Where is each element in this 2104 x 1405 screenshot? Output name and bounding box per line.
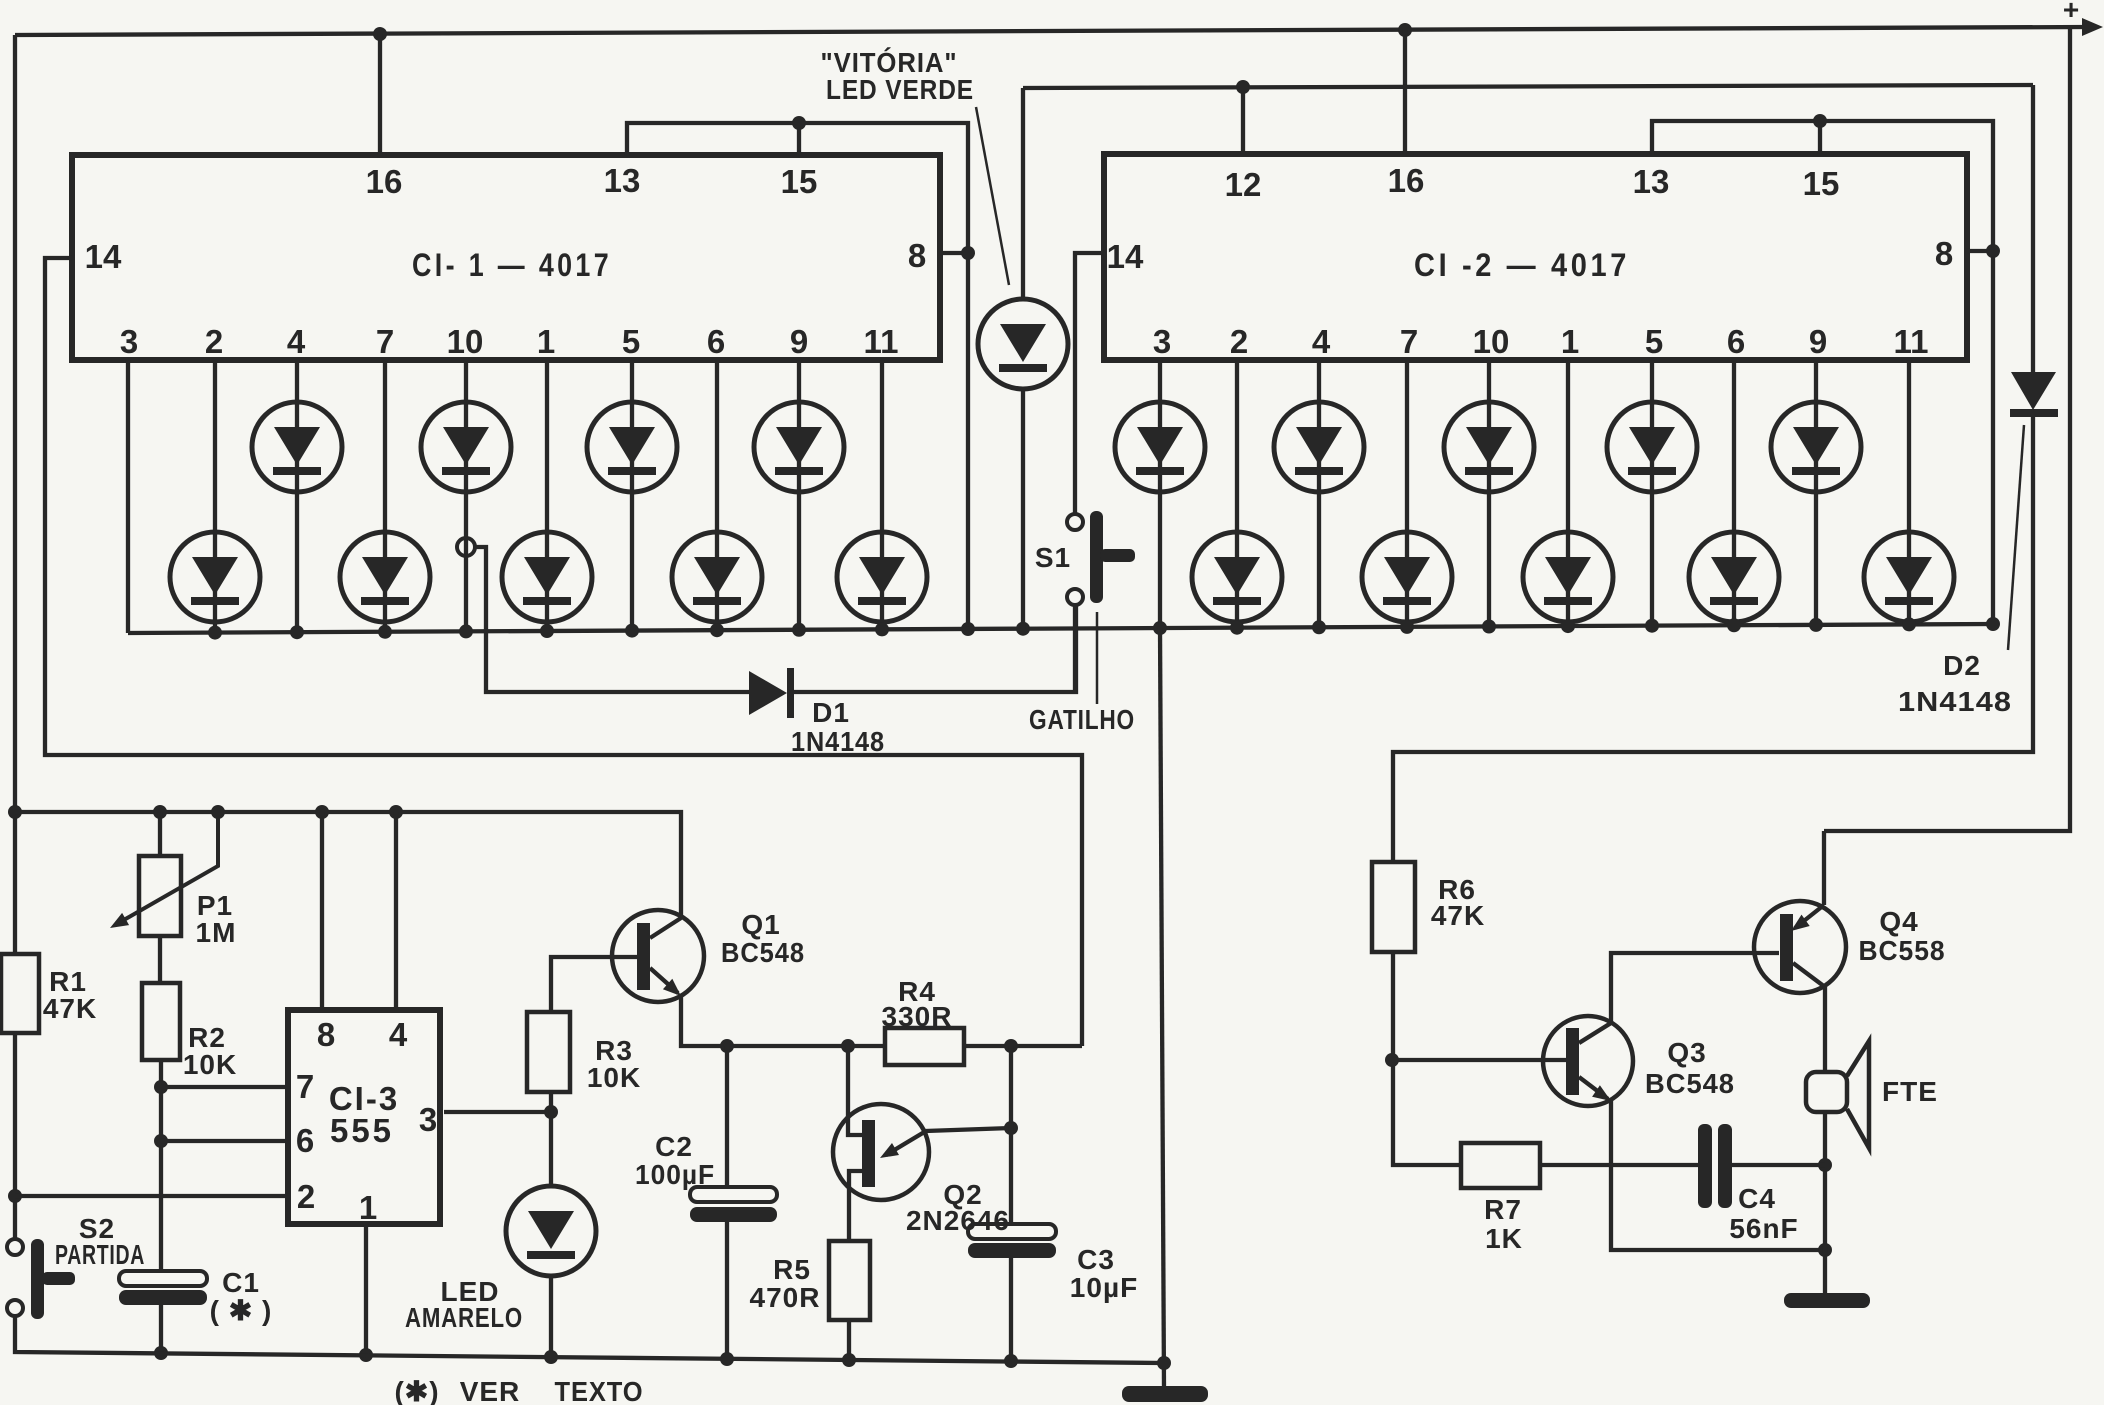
wire: CI-2 pin 3 column bbox=[1158, 360, 1162, 628]
wire: S1 lower terminal down bbox=[1073, 605, 1077, 692]
wire: P1 bottom to R2 top bbox=[158, 936, 162, 983]
wire: CI-2 pin 11 column bbox=[1907, 360, 1911, 625]
node: bus CI-2 pin7 bbox=[1400, 620, 1414, 634]
svg-text:1N4148: 1N4148 bbox=[791, 726, 885, 757]
node: bus CI-2 pin4 bbox=[1312, 620, 1326, 634]
svg-text:R5: R5 bbox=[773, 1254, 811, 1285]
node: bus pin11 bbox=[875, 622, 889, 636]
transistor Q4 emitter stroke with arrow (PNP) bbox=[1795, 905, 1824, 928]
svg-text:330R: 330R bbox=[882, 1001, 953, 1032]
node: bus pin5 bbox=[625, 624, 639, 638]
svg-text:6: 6 bbox=[1727, 323, 1745, 360]
svg-text:C2: C2 bbox=[655, 1131, 693, 1162]
wire: second rail (LED verde anode / CI-2 pin 12 / D2 anode) bbox=[1023, 85, 2033, 88]
resistor R4 bbox=[885, 1028, 964, 1065]
wire: +V top rail bbox=[15, 27, 2088, 35]
LED on CI-1 pin 9 bbox=[754, 402, 844, 492]
wire: 555 pin 3 output bbox=[444, 1110, 551, 1114]
svg-text:3: 3 bbox=[120, 323, 138, 360]
LED on CI-2 pin 6 bbox=[1689, 532, 1779, 622]
node: R5 / ground rail bbox=[842, 1353, 856, 1367]
wire: CI-1 pin 11 column bbox=[880, 360, 884, 630]
svg-text:1K: 1K bbox=[1485, 1223, 1523, 1254]
svg-text:10µF: 10µF bbox=[1070, 1272, 1138, 1303]
wire: left frame lower (R1 to S2) bbox=[13, 1033, 17, 1239]
node: R2 column / pin 7 wire bbox=[154, 1080, 168, 1094]
svg-text:S1: S1 bbox=[1035, 542, 1071, 573]
node: VCC rail / 555 pin 4 bbox=[389, 805, 403, 819]
switch S1 plunger bbox=[1090, 511, 1103, 603]
transistor Q1 circle bbox=[612, 910, 704, 1002]
svg-text:470R: 470R bbox=[750, 1282, 821, 1313]
switch S2 plunger bbox=[31, 1239, 44, 1319]
svg-text:Q3: Q3 bbox=[1667, 1037, 1706, 1068]
svg-text:C4: C4 bbox=[1738, 1183, 1776, 1214]
wire: C4 right to speaker column bbox=[1730, 1163, 1825, 1167]
svg-text:56nF: 56nF bbox=[1729, 1213, 1798, 1244]
wire: pin3 node down to LED amarelo bbox=[549, 1112, 553, 1187]
wire: CI-1 pin 7 column bbox=[383, 360, 387, 632]
svg-text:5: 5 bbox=[622, 323, 640, 360]
svg-text:CI -2 — 4017: CI -2 — 4017 bbox=[1414, 247, 1630, 283]
node: bus pin2 bbox=[208, 626, 222, 640]
node: R4 right / C3 column bbox=[1004, 1039, 1018, 1053]
switch S1 upper contact bbox=[1067, 514, 1083, 530]
transistor Q3 collector stroke bbox=[1579, 1023, 1611, 1043]
node: speaker column / C4-R7 line bbox=[1818, 1158, 1832, 1172]
resistor R5 bbox=[829, 1241, 870, 1320]
node: left frame / 555 VCC rail bbox=[8, 805, 22, 819]
capacitor C4 right plate bbox=[1718, 1124, 1732, 1208]
node: pin 8 / jumper bbox=[1986, 244, 2000, 258]
speaker FTE body bbox=[1806, 1072, 1847, 1112]
potentiometer P1 wiper arrow bbox=[122, 812, 218, 921]
svg-text:14: 14 bbox=[85, 238, 122, 275]
transistor Q2 emitter wire with arrow bbox=[886, 1128, 1011, 1155]
transistor Q3 base bar bbox=[1566, 1028, 1579, 1095]
capacitor C3 bottom plate bbox=[968, 1243, 1056, 1258]
svg-text:GATILHO: GATILHO bbox=[1029, 704, 1135, 735]
wire: Q4 emitter feed from + rail bbox=[1822, 831, 1826, 905]
wire: Q4 collector down to speaker bbox=[1823, 987, 1827, 1072]
switch S2 upper contact bbox=[7, 1239, 23, 1255]
+V arrowhead bbox=[2082, 18, 2103, 36]
diode D1 triangle bbox=[749, 671, 787, 715]
LED on CI-1 pin 11 bbox=[837, 532, 927, 622]
wire: CI-2 pin 15 riser bbox=[1818, 121, 1822, 154]
leader line to LED verde bbox=[976, 107, 1009, 285]
wire: 555 pin 2 bbox=[15, 1194, 288, 1198]
wire: C3 column bbox=[1009, 1046, 1013, 1224]
resistor R1 bbox=[1, 954, 39, 1033]
svg-text:47K: 47K bbox=[1431, 900, 1485, 931]
wire: R2 bottom down to C1 bbox=[159, 1060, 163, 1271]
node: pin 15 on jumper bbox=[1813, 114, 1827, 128]
wire: Q1 emitter down to node line bbox=[681, 995, 885, 1046]
capacitor C2 bottom plate bbox=[690, 1207, 777, 1222]
wire: Q3 emitter down to ground node bbox=[1611, 1101, 1825, 1250]
wire: P1 top lead bbox=[158, 812, 162, 856]
LED on CI-2 pin 4 bbox=[1274, 402, 1364, 492]
LED on CI-1 pin 7 bbox=[340, 532, 430, 622]
svg-text:D1: D1 bbox=[812, 697, 850, 728]
GATILHO pointer line bbox=[1096, 612, 1099, 704]
svg-text:CI- 1 — 4017: CI- 1 — 4017 bbox=[412, 247, 612, 283]
svg-text:12: 12 bbox=[1225, 166, 1262, 203]
wire: CI-1 pin 14 net (left loop to R4 node) bbox=[45, 258, 1082, 1046]
LED on CI-1 pin 2 bbox=[170, 532, 260, 622]
svg-text:555: 555 bbox=[330, 1112, 394, 1149]
wire: CI-1 pin 8 bbox=[940, 251, 968, 255]
wire: CI-1 pin 1 column bbox=[545, 360, 549, 631]
node: R6 column / Q3 base bbox=[1385, 1053, 1399, 1067]
svg-text:1: 1 bbox=[1561, 323, 1579, 360]
wire: C2 bottom to ground rail bbox=[725, 1222, 729, 1359]
wire: LED amarelo cathode to ground rail bbox=[549, 1276, 553, 1357]
svg-text:LED VERDE: LED VERDE bbox=[826, 74, 974, 105]
svg-text:10K: 10K bbox=[587, 1062, 641, 1093]
wire: R4 right to pin14 riser bbox=[964, 1044, 1082, 1048]
node: C1 / ground rail bbox=[154, 1346, 168, 1360]
wire: CI-2 pins 13-15 jumper down to pin 8 / bus end bbox=[1652, 121, 1993, 624]
svg-text:15: 15 bbox=[1803, 165, 1840, 202]
wire: CI-2 pin 7 column bbox=[1405, 360, 1409, 627]
svg-text:7: 7 bbox=[1400, 323, 1418, 360]
wire: LED verde cathode to bus bbox=[1021, 389, 1025, 629]
wire: CI-2 pin 14 to S1 bbox=[1075, 253, 1104, 514]
wire: CI-1 pin 4 column bbox=[295, 360, 299, 632]
transistor Q3 emitter stroke with arrow bbox=[1579, 1077, 1608, 1099]
LED on CI-2 pin 11 bbox=[1864, 532, 1954, 622]
svg-text:Q4: Q4 bbox=[1879, 906, 1918, 937]
svg-text:47K: 47K bbox=[43, 993, 97, 1024]
LED on CI-2 pin 2 bbox=[1192, 532, 1282, 622]
svg-text:( ✱ ): ( ✱ ) bbox=[210, 1295, 273, 1326]
wire: R5 bottom to ground rail bbox=[847, 1320, 851, 1360]
node: VCC rail / 555 pin 8 bbox=[315, 805, 329, 819]
wire: C1 bottom to ground rail bbox=[159, 1305, 163, 1354]
wire: CI-1 pin 10 column bbox=[464, 360, 468, 632]
diode D2 triangle bbox=[2011, 372, 2056, 410]
wire: R3 bottom to pin 3 node bbox=[549, 1092, 553, 1112]
svg-text:11: 11 bbox=[864, 323, 899, 360]
capacitor C2 top plate bbox=[690, 1187, 777, 1202]
node: bus CI-2 pin5 bbox=[1645, 619, 1659, 633]
wire: Q2 base2 riser bbox=[848, 1046, 862, 1135]
wire: D1 anode feed from pin 10 tap bbox=[475, 547, 749, 692]
node: bus pin7 bbox=[378, 625, 392, 639]
wire: CI-2 pin 9 column bbox=[1814, 360, 1818, 625]
wire: CI-2 pin 16 to top rail bbox=[1403, 30, 1407, 154]
resistor R6 bbox=[1372, 862, 1415, 952]
LED on CI-2 pin 3 bbox=[1115, 402, 1205, 492]
svg-text:AMARELO: AMARELO bbox=[405, 1302, 523, 1333]
wire: Q3 base bbox=[1392, 1058, 1566, 1062]
transistor Q1 collector stroke bbox=[650, 918, 681, 938]
svg-text:(✱): (✱) bbox=[394, 1376, 439, 1405]
svg-text:2: 2 bbox=[297, 1178, 315, 1215]
node: pin 8 / jumper line bbox=[961, 246, 975, 260]
wire: 555 VCC rail + Q1 collector bbox=[15, 812, 681, 919]
node: pin 3 / R3 / LED column bbox=[544, 1105, 558, 1119]
svg-text:3: 3 bbox=[1153, 323, 1171, 360]
svg-text:9: 9 bbox=[790, 323, 808, 360]
wire: CI-2 pin 12 riser bbox=[1241, 86, 1245, 154]
svg-text:BC548: BC548 bbox=[721, 937, 805, 968]
transistor Q4 circle bbox=[1754, 901, 1846, 993]
svg-text:2: 2 bbox=[205, 323, 223, 360]
svg-text:1: 1 bbox=[359, 1189, 377, 1226]
ground symbol bottom center bbox=[1122, 1386, 1208, 1402]
wire: Q2 base1 down to R5 bbox=[849, 1171, 862, 1241]
svg-text:TEXTO: TEXTO bbox=[555, 1376, 644, 1405]
IC CI-2 4017 box bbox=[1104, 154, 1967, 360]
LED on CI-1 pin 5 bbox=[587, 402, 677, 492]
node: Q2 emitter / C3 column bbox=[1004, 1121, 1018, 1135]
node: bus CI-2 pin2 bbox=[1230, 621, 1244, 635]
svg-text:BC558: BC558 bbox=[1859, 935, 1946, 966]
svg-text:10: 10 bbox=[1473, 323, 1510, 360]
capacitor C1 bottom plate bbox=[119, 1290, 207, 1305]
tap circle on pin 10 column for D1 bbox=[457, 538, 475, 556]
node: bus CI-2 pin9 bbox=[1809, 618, 1823, 632]
node: bus CI-2 pin10 bbox=[1482, 620, 1496, 634]
LED on CI-2 pin 5 bbox=[1607, 402, 1697, 492]
resistor R2 bbox=[142, 983, 180, 1060]
node: bus CI-2 pin3 bbox=[1153, 621, 1167, 635]
LED amarelo bbox=[506, 1186, 596, 1276]
svg-text:BC548: BC548 bbox=[1645, 1068, 1735, 1099]
svg-text:R7: R7 bbox=[1484, 1194, 1522, 1225]
node: C3 / ground rail bbox=[1004, 1354, 1018, 1368]
ground line: CI-2 pin3 column to bottom ground bbox=[1160, 628, 1164, 1388]
transistor Q1 base bar bbox=[637, 923, 650, 990]
svg-text:16: 16 bbox=[366, 163, 403, 200]
node: bus CI-2 pin1 bbox=[1561, 619, 1575, 633]
switch S1 lower contact bbox=[1067, 589, 1083, 605]
wire: D1 cathode to S1 lower terminal bbox=[794, 605, 1076, 692]
svg-text:1: 1 bbox=[537, 323, 555, 360]
wire: R6 bottom to R7 left bbox=[1393, 952, 1461, 1165]
svg-text:4: 4 bbox=[1312, 323, 1331, 360]
node: pin 15 on jumper bbox=[792, 116, 806, 130]
transistor Q4 collector stroke bbox=[1793, 963, 1825, 987]
node: pin 12 on second rail bbox=[1236, 80, 1250, 94]
svg-text:C1: C1 bbox=[222, 1267, 260, 1298]
transistor Q2 bar bbox=[862, 1120, 875, 1187]
node: top rail / CI-2 pin 16 bbox=[1398, 23, 1412, 37]
node: R2 column / pin 6 wire bbox=[154, 1134, 168, 1148]
transistor Q3 circle bbox=[1543, 1016, 1633, 1106]
resistor R3 bbox=[527, 1012, 570, 1092]
LED on CI-2 pin 10 bbox=[1444, 402, 1534, 492]
node: bus pin9 bbox=[792, 623, 806, 637]
wire: CI-2 pin 1 column bbox=[1566, 360, 1570, 626]
LED on CI-2 pin 1 bbox=[1523, 532, 1613, 622]
wire: CI-2 pin 6 column bbox=[1732, 360, 1736, 626]
node: jumper line / ground bus bbox=[961, 622, 975, 636]
wire: R3 top to Q1 base bbox=[551, 957, 637, 1012]
wire: speaker bottom to C4 node bbox=[1823, 1112, 1827, 1250]
svg-text:5: 5 bbox=[1645, 323, 1663, 360]
wire: CI-1 pin 5 column bbox=[630, 360, 634, 631]
IC CI-3 555 box bbox=[288, 1010, 440, 1224]
wire: R7 right to C4 bbox=[1540, 1163, 1698, 1167]
LED on CI-2 pin 7 bbox=[1362, 532, 1452, 622]
svg-text:2: 2 bbox=[1230, 323, 1248, 360]
svg-text:9: 9 bbox=[1809, 323, 1827, 360]
transistor Q1 emitter stroke with arrow bbox=[650, 968, 678, 993]
svg-text:D2: D2 bbox=[1943, 650, 1981, 681]
svg-text:4: 4 bbox=[389, 1016, 408, 1053]
node: bus pin1 bbox=[540, 624, 554, 638]
svg-text:100µF: 100µF bbox=[635, 1159, 715, 1190]
wire: 555 pin 8 riser bbox=[320, 812, 324, 1010]
wire: ground drop right stage bbox=[1823, 1250, 1827, 1296]
wire: CI-1 pin 15 riser bbox=[797, 123, 801, 155]
node: top rail / CI-1 pin 16 bbox=[373, 27, 387, 41]
capacitor C4 left plate bbox=[1698, 1124, 1712, 1208]
wire: CI-1 pins 13-15 jumper down to pin 8 / ground bus bbox=[627, 123, 968, 630]
LED on CI-1 pin 10 bbox=[421, 402, 511, 492]
svg-text:PARTIDA: PARTIDA bbox=[55, 1239, 145, 1270]
svg-text:11: 11 bbox=[1894, 323, 1929, 360]
wire: left frame upper (top rail to R1) bbox=[13, 35, 17, 954]
wire: CI-1 pin 3 column bbox=[126, 360, 130, 633]
svg-text:8: 8 bbox=[908, 237, 926, 274]
wire: CI-1 pin 16 to top rail bbox=[378, 34, 382, 155]
resistor R7 bbox=[1461, 1143, 1540, 1188]
wire: 555 pin 1 down to ground rail bbox=[364, 1224, 368, 1356]
wire: CI-2 pin 2 column bbox=[1235, 360, 1239, 628]
IC CI-1 4017 box bbox=[72, 155, 940, 360]
wire: CI-2 pin 5 column bbox=[1650, 360, 1654, 626]
wire: S2 bottom to ground rail corner bbox=[15, 1316, 1164, 1363]
capacitor C3 top plate bbox=[968, 1224, 1056, 1239]
wire: CI-1 pin 9 column bbox=[797, 360, 801, 630]
wire: 555 pin 7 bbox=[161, 1085, 288, 1089]
wire: C3 bottom to ground rail bbox=[1009, 1258, 1013, 1361]
node: emitter line / C2 bbox=[720, 1039, 734, 1053]
node: ground rail / ground line bbox=[1157, 1356, 1171, 1370]
node: VCC rail / P1 top bbox=[153, 805, 167, 819]
node: VCC rail / P1 wiper bbox=[211, 805, 225, 819]
node: bus CI-2 pin6 bbox=[1727, 618, 1741, 632]
wire: CI-1 pin 6 column bbox=[715, 360, 719, 631]
LED on CI-1 pin 4 bbox=[252, 402, 342, 492]
svg-text:Q1: Q1 bbox=[741, 909, 780, 940]
svg-text:8: 8 bbox=[1935, 235, 1953, 272]
svg-text:13: 13 bbox=[1633, 163, 1670, 200]
svg-text:8: 8 bbox=[317, 1016, 335, 1053]
svg-text:13: 13 bbox=[604, 162, 641, 199]
node: Q3 emitter line / speaker column bbox=[1818, 1243, 1832, 1257]
ground symbol right stage bbox=[1784, 1293, 1870, 1308]
capacitor C1 top plate bbox=[119, 1271, 207, 1286]
wire: CI-2 pin 4 column bbox=[1317, 360, 1321, 628]
wire: Q3 collector up to Q4 base bbox=[1611, 953, 1779, 1023]
svg-text:6: 6 bbox=[707, 323, 725, 360]
svg-text:3: 3 bbox=[419, 1101, 437, 1138]
wire: CI-2 pin 8 bbox=[1967, 249, 1993, 253]
leader line to D2 bbox=[2008, 425, 2024, 650]
wire: 555 pin 6 bbox=[161, 1139, 288, 1143]
node: LED amarelo / ground rail bbox=[544, 1350, 558, 1364]
wire: C2 column bbox=[725, 1046, 729, 1187]
svg-text:7: 7 bbox=[296, 1068, 314, 1105]
node: C2 / ground rail bbox=[720, 1352, 734, 1366]
transistor Q4 base bar bbox=[1780, 914, 1793, 981]
node: bus pin10 bbox=[459, 624, 473, 638]
node: bus pin6 bbox=[710, 623, 724, 637]
svg-text:7: 7 bbox=[376, 323, 394, 360]
wire: D2 anode drop bbox=[2031, 85, 2035, 373]
diode D2 cathode bar bbox=[2010, 409, 2058, 417]
node: left frame / 555 pin 2 wire bbox=[8, 1189, 22, 1203]
node: bus CI-2 pin11 bbox=[1902, 617, 1916, 631]
svg-text:4: 4 bbox=[287, 323, 306, 360]
svg-text:1M: 1M bbox=[196, 917, 237, 948]
node: pin 1 / ground rail bbox=[359, 1348, 373, 1362]
potentiometer P1 body bbox=[139, 856, 181, 936]
LED on CI-1 pin 1 bbox=[502, 532, 592, 622]
LED on CI-2 pin 9 bbox=[1771, 402, 1861, 492]
speaker FTE horn bbox=[1847, 1041, 1869, 1148]
wire: CI-2 pin 10 column bbox=[1487, 360, 1491, 627]
svg-text:FTE: FTE bbox=[1882, 1076, 1938, 1107]
svg-text:10K: 10K bbox=[183, 1049, 237, 1080]
wire: 555 pin 4 riser bbox=[394, 812, 398, 1010]
diode D1 cathode bar bbox=[787, 668, 794, 718]
svg-text:VER: VER bbox=[460, 1376, 521, 1405]
transistor Q2 circle bbox=[833, 1104, 929, 1200]
svg-text:16: 16 bbox=[1388, 162, 1425, 199]
svg-text:2N2646: 2N2646 bbox=[906, 1205, 1010, 1236]
node: bus LED verde column bbox=[1016, 622, 1030, 636]
svg-text:15: 15 bbox=[781, 163, 818, 200]
svg-text:C3: C3 bbox=[1077, 1244, 1115, 1275]
node: jumper / bus right end bbox=[1986, 617, 2000, 631]
wire: CI-1 pin 2 column bbox=[213, 360, 217, 633]
wire: D2 cathode to R6 top bbox=[1393, 417, 2033, 862]
node: emitter line / Q2 emitter riser bbox=[841, 1039, 855, 1053]
node: bus pin4 bbox=[290, 625, 304, 639]
wire: LED cathode ground bus bbox=[128, 624, 1994, 633]
wire: +V right rail down to Q4 emitter feed bbox=[1824, 27, 2070, 831]
svg-text:1N4148: 1N4148 bbox=[1898, 686, 2012, 717]
svg-text:+: + bbox=[2063, 0, 2079, 25]
svg-text:6: 6 bbox=[296, 1122, 314, 1159]
switch S2 lower contact bbox=[7, 1300, 23, 1316]
LED verde (VITORIA) bbox=[978, 299, 1068, 389]
svg-text:10: 10 bbox=[447, 323, 484, 360]
LED on CI-1 pin 6 bbox=[672, 532, 762, 622]
svg-text:14: 14 bbox=[1107, 238, 1144, 275]
wire: LED verde anode riser bbox=[1021, 88, 1025, 299]
